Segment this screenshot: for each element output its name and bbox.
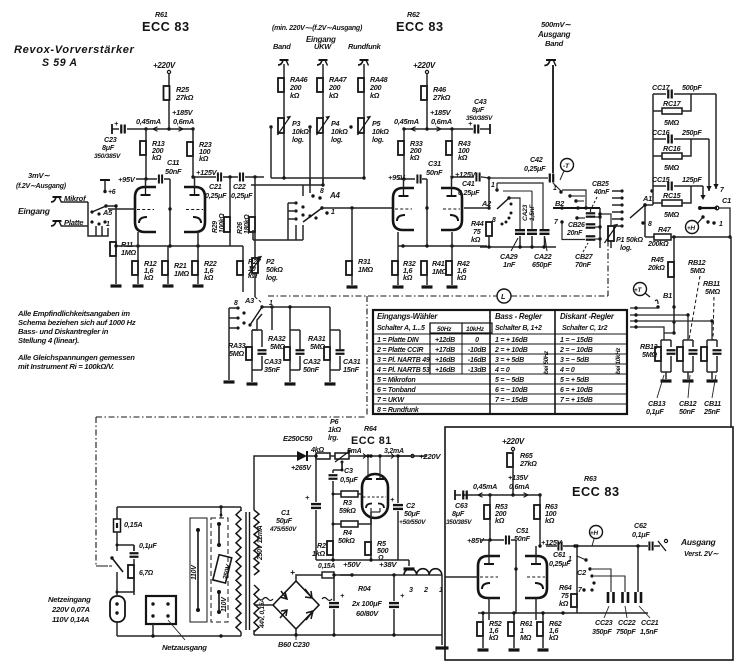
measure point +H [686,221,699,234]
svg-text:50μF: 50μF [276,516,293,525]
svg-text:475/550V: 475/550V [269,526,297,533]
ground R21 [163,284,174,287]
svg-text:50nF: 50nF [165,167,182,176]
svg-text:Bass- und Diskantregler in: Bass- und Diskantregler in [18,327,109,336]
potentiometer P6 1k [328,417,427,464]
svg-text:+50V: +50V [343,560,361,569]
tube V2 label R62 ECC 83 [396,10,444,34]
potentiometer P1 50k [598,212,643,252]
svg-text:350/385V: 350/385V [94,153,121,160]
svg-text:R63: R63 [584,474,597,483]
svg-text:50nF: 50nF [679,407,696,416]
svg-text:7 = + 15dB: 7 = + 15dB [560,397,593,404]
svg-text:220V 0,07A: 220V 0,07A [51,605,90,614]
svg-text:Schema beziehen sich auf 1000: Schema beziehen sich auf 1000 Hz [18,318,136,327]
label +125V out [538,538,562,548]
resistor R3 59k [332,481,334,494]
svg-text:8μF: 8μF [452,509,465,518]
svg-text:CA23: CA23 [522,204,529,221]
svg-text:10kHz: 10kHz [466,326,485,333]
svg-text:1,5nF: 1,5nF [529,204,536,221]
wire choke right down [441,575,443,645]
svg-text:8: 8 [234,300,238,307]
svg-text:250V 12mA: 250V 12mA [257,525,264,561]
svg-text:1,5nF: 1,5nF [640,627,658,636]
resistor R31 1M [346,208,374,285]
svg-text:+265V: +265V [291,463,312,472]
resistor R64 75k [559,544,579,613]
wire bus to A4 [303,178,310,196]
svg-text:6 = − 10dB: 6 = − 10dB [495,387,528,394]
svg-text:B60 C230: B60 C230 [278,640,310,649]
svg-text:25nF: 25nF [703,407,721,416]
network CC16 250pF RC16 5M [652,128,712,191]
svg-text:(min. 220V∼-(f.2V∼Ausgang): (min. 220V∼-(f.2V∼Ausgang) [272,25,363,32]
potentiometer P4 10k log [308,116,348,185]
svg-text:log.: log. [620,243,632,252]
table Eingangs-Waehler Bass-Regler Diskant-Regler [373,310,627,414]
svg-text:C22: C22 [233,182,246,191]
label +125V stage2 [450,170,476,179]
svg-text:250pF: 250pF [681,128,702,137]
label +125V stage1 [191,168,217,179]
svg-text:Schalter A, 1...5: Schalter A, 1...5 [377,325,425,332]
ground R22 [193,284,204,287]
svg-text:B2: B2 [555,199,565,208]
resistor R53 200k [484,495,508,540]
svg-text:3 = − 5dB: 3 = − 5dB [560,357,589,364]
resistor R29 100k rotated label [212,177,230,246]
svg-text:CB25: CB25 [592,181,609,188]
resistor R4 50k body [341,521,358,527]
supply +220V right [398,452,441,461]
svg-text:0,6mA: 0,6mA [509,482,529,491]
svg-text:+12dB: +12dB [435,337,455,344]
labels CC caps [592,606,659,636]
resistor R44 75k [464,208,492,247]
svg-text:20nF: 20nF [566,230,583,237]
svg-text:R47: R47 [658,225,672,234]
resistor R62 1.6k [537,613,562,648]
svg-text:3,2mA: 3,2mA [384,448,404,455]
svg-text:+: + [290,567,295,577]
capacitor CA22 650pF [532,230,552,269]
mains top wire [117,505,241,518]
switch A4 [253,188,340,240]
tube V4 ECC81 label [351,424,392,447]
output terminal Ausgang [658,537,719,558]
svg-text:C42: C42 [530,155,543,164]
svg-text:50nF: 50nF [426,168,443,177]
label RB12 5M [688,258,706,340]
svg-text:15nF: 15nF [343,365,360,374]
svg-text:1: 1 [568,556,572,563]
label Eingang input [18,206,51,216]
resistor RB12 + capacitor CB12 50nF pair [677,340,698,379]
svg-text:0,1μF: 0,1μF [632,530,650,539]
svg-text:0,25μF: 0,25μF [524,164,546,173]
svg-text:7 = UKW: 7 = UKW [377,397,405,404]
svg-text:Revox-Vorverstärker: Revox-Vorverstärker [14,44,135,56]
fuse 0.15A LV [318,563,352,578]
svg-text:R04: R04 [358,584,371,593]
svg-text:kΩ: kΩ [403,273,413,282]
svg-text:50kΩ: 50kΩ [338,536,355,545]
resistor R5 500 [365,518,389,562]
svg-text:110V: 110V [191,564,198,580]
anode rail stage2 [402,127,470,131]
svg-text:750pF: 750pF [616,627,636,636]
switch C1 [697,196,732,239]
svg-text:8μF: 8μF [102,143,115,152]
svg-text:0,6mA: 0,6mA [431,117,452,126]
svg-text:0,15A: 0,15A [124,520,143,529]
svg-text:log.: log. [331,135,343,144]
svg-text:2x 100μF: 2x 100μF [351,599,382,608]
output Ausgang Band [537,20,571,173]
svg-text:S 59 A: S 59 A [42,57,78,69]
resistor R65 27k [507,451,537,495]
triode V2a envelope [393,179,414,230]
resistor R41 1M [421,259,448,285]
feedback line right [730,237,732,427]
svg-text:5MΩ: 5MΩ [664,163,680,172]
capacitor C1 50uF [269,456,321,560]
svg-text:350/385V: 350/385V [446,519,472,526]
wire ECC81 bottom bus [316,558,398,561]
svg-text:Ausgang: Ausgang [680,537,717,547]
svg-text:Netzausgang: Netzausgang [162,643,207,652]
svg-text:500pF: 500pF [682,83,702,92]
svg-text:27kΩ: 27kΩ [432,93,451,102]
resistor R32 1.6k [392,232,416,285]
svg-text:kΩ: kΩ [458,153,468,162]
measure point +H out [590,526,603,547]
input terminal Rundfunk [348,42,382,66]
wire R4 left [332,524,334,541]
input terminal UKW [314,42,332,66]
svg-text:+17dB: +17dB [435,347,455,354]
svg-text:kΩ: kΩ [144,273,154,282]
selector 250V plate [213,555,233,583]
capacitor CB26 20nF [566,222,600,237]
capacitor C62 0.1uF [632,521,660,551]
svg-text:0,6mA: 0,6mA [173,117,194,126]
LV bottom bus [254,629,442,637]
bridge output top [296,575,322,581]
svg-text:-16dB: -16dB [468,357,486,364]
svg-text:R29: R29 [212,221,219,233]
svg-text:8 = Rundfunk: 8 = Rundfunk [377,407,420,414]
svg-text:A2: A2 [481,199,492,208]
svg-text:2 = + 10dB: 2 = + 10dB [494,347,528,354]
switch A2 [481,182,543,229]
measure point +T [634,283,651,298]
anode rail out [462,493,542,497]
svg-text:5MΩ: 5MΩ [705,287,721,296]
svg-text:CB26: CB26 [568,222,585,229]
cathode bus stage1 [114,244,243,247]
svg-text:100kΩ: 100kΩ [219,213,226,233]
svg-text:50nF: 50nF [303,365,320,374]
svg-text:kΩ: kΩ [457,273,467,282]
tube V4 grid [363,496,386,498]
tube V4 anode leads [364,454,384,479]
svg-text:5 = − 5dB: 5 = − 5dB [495,377,524,384]
svg-text:C11: C11 [167,158,179,167]
shield dash-dot left box [96,296,367,566]
svg-text:0,1μF: 0,1μF [646,407,664,416]
svg-text:+220V: +220V [413,61,436,70]
choke winding [404,569,443,594]
svg-text:(f.2V∼Ausgang): (f.2V∼Ausgang) [16,183,67,190]
svg-text:Band: Band [273,42,291,51]
svg-text:1MΩ: 1MΩ [121,248,137,257]
svg-text:kΩ: kΩ [199,154,209,163]
resistor R12 1.6k [132,232,157,284]
svg-text:C41: C41 [462,179,475,188]
svg-text:1 = Platte DIN: 1 = Platte DIN [377,337,420,344]
svg-text:35nF: 35nF [264,365,281,374]
resistor R22 1.6k [192,232,217,284]
svg-text:+135V: +135V [508,473,529,482]
ground R42 [447,285,458,288]
svg-text:0,45mA: 0,45mA [473,482,497,491]
svg-text:CC22: CC22 [618,618,636,627]
svg-text:5 = Mikrofon: 5 = Mikrofon [377,377,415,384]
svg-text:R62: R62 [407,10,420,19]
ground RA32 [285,382,296,385]
labels stage2 currents [394,108,452,126]
transformer secondary LV winding [254,585,259,632]
note sensitivity text block [17,309,136,371]
svg-text:C62: C62 [634,521,647,530]
svg-text:C1: C1 [722,196,731,205]
input jack Platte [51,218,88,227]
svg-text:RC16: RC16 [663,144,682,153]
label CB12 [679,375,697,416]
label 5mA 3.2mA [347,448,404,455]
svg-text:kΩ: kΩ [545,516,555,525]
svg-text:3 = + 5dB: 3 = + 5dB [495,357,524,364]
capacitor 100uF a [329,573,345,635]
svg-text:7 = − 15dB: 7 = − 15dB [495,397,528,404]
svg-text:70nF: 70nF [575,260,592,269]
svg-text:-10dB: -10dB [468,347,486,354]
ground R12 [133,284,144,287]
resistor R63 100k [534,495,558,546]
wire pots bus [251,127,366,187]
svg-text:mit Instrument Ri = 100kΩ/V.: mit Instrument Ri = 100kΩ/V. [18,362,114,371]
diode E250C50 [254,434,325,510]
ground R11 [111,284,122,287]
arrow 5mA [358,454,366,459]
wire P6 wiper down [341,462,343,470]
svg-text:4 = 0: 4 = 0 [559,367,575,374]
svg-text:kΩ: kΩ [495,516,505,525]
svg-text:4 = Pl. NARTB 53: 4 = Pl. NARTB 53 [376,367,430,374]
capacitor CA29 1nF [500,230,537,269]
wire right rail CC label [720,187,725,194]
ground LV [436,646,449,649]
svg-text:0,15A: 0,15A [318,563,335,570]
junction dots ECC81 top [314,454,317,457]
svg-text:1nF: 1nF [503,260,516,269]
svg-text:200kΩ: 200kΩ [647,239,669,248]
tube V4 cathodes [366,504,384,513]
input terminal Band [273,42,291,66]
svg-text:+220V: +220V [502,437,525,446]
svg-text:lrg.: lrg. [328,433,338,442]
svg-text:+95V: +95V [118,175,136,184]
LV rail [340,573,442,576]
svg-text:125pF: 125pF [682,175,702,184]
svg-text:MΩ: MΩ [520,633,532,642]
switch A5 [88,180,116,236]
cathode wires V3 [489,598,536,620]
resistor R11 1M [110,240,137,284]
wire R3 to grid [332,494,334,524]
svg-text:CC23: CC23 [595,618,613,627]
triode V3b envelope [525,546,547,598]
resistor 6.7 ohm [128,565,154,595]
svg-text:110V: 110V [221,596,228,612]
output coupling line [546,545,557,547]
label min 220V [272,25,363,32]
svg-text:20kΩ: 20kΩ [647,263,665,272]
svg-text:ECC 83: ECC 83 [396,19,444,34]
resistor R25 27k [164,85,194,129]
resistor R45 20k [647,237,674,284]
tube V1 label R61 ECC 83 [142,10,190,34]
svg-text:Diskant -Regler: Diskant -Regler [560,312,615,321]
label R04 2x100uF [351,584,382,618]
fuse 0.15A mains [114,507,143,551]
svg-text:2: 2 [423,585,428,594]
svg-text:+H: +H [590,530,598,537]
wire primary feed [220,507,222,515]
svg-text:650pF: 650pF [532,260,552,269]
bridge B60C230 [273,581,319,629]
capacitor C51 50nF [467,526,531,545]
svg-text:44V, 0,15A: 44V, 0,15A [259,598,266,629]
svg-text:5MΩ: 5MΩ [310,342,326,351]
svg-text:Bass - Regler: Bass - Regler [495,312,543,321]
resistor R33 200k [398,129,423,179]
junction dots rail2 [369,454,372,457]
title Revox-Vorverstärker S 59 A [14,44,135,69]
wire B2 collector rail [598,208,601,248]
svg-text:50μF: 50μF [404,509,421,518]
labels +50V +38V [343,560,397,569]
ground R32 [393,285,404,288]
svg-text:kΩ: kΩ [410,153,420,162]
svg-text:1: 1 [331,209,335,216]
svg-text:0: 0 [475,337,479,344]
svg-text:ECC 81: ECC 81 [351,435,392,447]
svg-text:0,25μF: 0,25μF [205,191,227,200]
wire V2 inner grid [425,179,428,246]
svg-text:R61: R61 [155,10,168,19]
resistor R3 59k body [341,491,358,497]
wire grid line V1a [108,208,135,210]
labels currents out [473,473,529,491]
svg-text:+125V: +125V [196,168,218,177]
svg-text:Stellung 4 (linear).: Stellung 4 (linear). [18,336,79,345]
svg-text:0,5μF: 0,5μF [340,475,358,484]
resistor R43 100k [446,129,471,175]
wire primary top [0,0,1,1]
capacitor C41 0.25uF [452,173,482,198]
svg-text:+38V: +38V [379,560,397,569]
resistor RA33 5M + capacitor CA33 35nF [228,330,282,378]
ground R41 [422,285,433,288]
svg-text:1: 1 [719,221,723,228]
capacitor C3 0.5uF [329,462,359,484]
cathode bus stage2 [398,244,487,247]
ground RA31 [325,382,336,385]
svg-text:RC15: RC15 [663,191,682,200]
svg-text:1: 1 [553,185,557,192]
primary taps dashed box 110V b [211,518,228,622]
svg-text:C3: C3 [344,466,353,475]
switch B1 [630,284,714,340]
resistor 4k filter [316,453,335,459]
capacitor 0.1uF mains [130,541,158,565]
resistor R47 200k [645,225,731,248]
wire bus grid bottom [481,611,484,614]
resistor R23 100k [187,129,212,176]
svg-text:B1: B1 [663,291,672,300]
wire A2 feed junction [482,176,491,209]
svg-text:A3: A3 [244,296,255,305]
svg-text:Schalter C, 1r2: Schalter C, 1r2 [562,325,608,332]
wire primary connections [0,0,1,1]
capacitor CB25 40nF [575,208,600,220]
switch C2 output [568,556,596,594]
svg-text:Eingang: Eingang [18,206,51,216]
svg-text:8μF: 8μF [472,105,485,114]
svg-text:UKW: UKW [314,42,332,51]
capacitor C23 8uF [94,119,125,160]
svg-text:5MΩ: 5MΩ [690,266,706,275]
secondary LV wires [0,0,1,1]
wire C3 top [333,469,342,471]
svg-text:RC17: RC17 [663,99,682,108]
svg-text:-13dB: -13dB [468,367,486,374]
input jack Mikrof [51,194,88,203]
tube V4 ECC81 envelope [362,474,388,518]
output stage box [445,427,733,660]
label CB13 [646,375,666,416]
svg-text:0,25μF: 0,25μF [458,188,480,197]
wire +125V rail with C21 C22 [193,173,264,182]
ground R52 [478,648,489,651]
supply +220V terminal stage1 [153,61,176,86]
transformer secondary HV winding [254,510,264,575]
svg-text:6,7Ω: 6,7Ω [139,570,154,577]
svg-text:1: 1 [106,221,110,228]
capacitor C42 0.25uF [489,155,561,191]
transformer core [246,512,250,630]
capacitor 100uF b [389,575,405,635]
switch A1 [612,189,654,228]
svg-text:C61: C61 [553,550,566,559]
triode V2b envelope [441,177,462,230]
svg-text:59kΩ: 59kΩ [339,506,356,515]
svg-text:ECC 83: ECC 83 [572,484,620,499]
svg-text:110V 0,14A: 110V 0,14A [52,615,89,624]
